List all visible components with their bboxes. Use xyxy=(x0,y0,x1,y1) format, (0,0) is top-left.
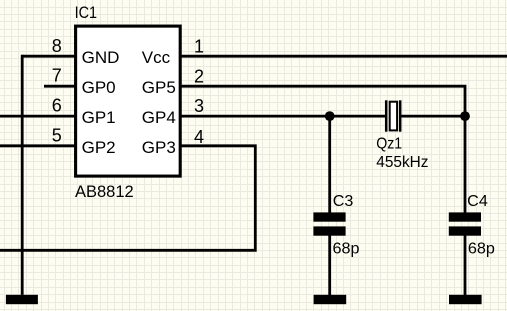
svg-text:3: 3 xyxy=(194,96,204,116)
svg-text:8: 8 xyxy=(52,36,62,56)
svg-text:GP5: GP5 xyxy=(142,78,176,97)
svg-text:GP3: GP3 xyxy=(142,138,176,157)
svg-text:AB8812: AB8812 xyxy=(75,183,134,201)
svg-text:Vcc: Vcc xyxy=(142,48,171,67)
svg-text:1: 1 xyxy=(194,36,204,56)
svg-text:6: 6 xyxy=(52,96,62,116)
svg-text:GND: GND xyxy=(82,48,120,67)
svg-text:C3: C3 xyxy=(333,193,354,210)
svg-text:GP4: GP4 xyxy=(142,108,176,127)
svg-text:455kHz: 455kHz xyxy=(376,154,428,171)
svg-text:GP2: GP2 xyxy=(82,138,116,157)
svg-text:2: 2 xyxy=(194,67,204,87)
svg-text:68p: 68p xyxy=(333,241,360,258)
svg-text:C4: C4 xyxy=(467,193,488,210)
svg-text:IC1: IC1 xyxy=(75,4,98,22)
svg-text:Qz1: Qz1 xyxy=(376,135,402,152)
svg-text:68p: 68p xyxy=(468,241,495,258)
svg-text:4: 4 xyxy=(194,127,204,147)
svg-text:7: 7 xyxy=(52,66,62,86)
svg-text:5: 5 xyxy=(52,126,62,146)
svg-text:GP0: GP0 xyxy=(82,78,116,97)
svg-text:GP1: GP1 xyxy=(82,108,116,127)
